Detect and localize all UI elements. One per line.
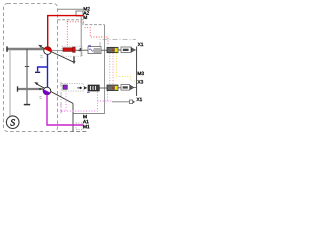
frame divider x61 — [60, 82, 62, 114]
dotted group row2 — [62, 84, 84, 92]
wire A2 red — [48, 16, 84, 47]
magenta dotted signal 3 — [98, 91, 108, 101]
magenta dotted signal 2 — [60, 104, 62, 111]
terminal bar — [6, 46, 8, 51]
tap vertical x81 — [80, 16, 82, 56]
terminal T-bar — [24, 104, 30, 106]
gray net X1 wire — [112, 101, 130, 103]
signal tap arrow R1 — [73, 56, 75, 62]
row2 terminal tick — [17, 86, 19, 91]
thick wire row2 — [18, 88, 44, 90]
wire M loop vertical — [73, 25, 105, 114]
AM2 tiny label — [39, 97, 42, 99]
wire magenta — [47, 95, 83, 125]
bullet source — [77, 87, 79, 89]
label A1 — [83, 120, 89, 123]
meter block M2a — [107, 85, 118, 91]
wire — [118, 49, 121, 51]
purple box — [63, 85, 67, 89]
thick bus wire top — [7, 48, 44, 50]
resistor R3 — [121, 85, 130, 91]
wire M bottom stub — [73, 113, 83, 115]
arrow sym row1 — [131, 47, 133, 52]
wire — [101, 49, 107, 51]
pin dashed box bottom — [76, 123, 83, 130]
end bracket — [130, 100, 133, 104]
arrow sym row2 — [129, 85, 131, 90]
label M3 — [138, 72, 144, 75]
label X3 — [138, 80, 144, 83]
red dotted signal L3 — [85, 28, 109, 46]
label M2 — [84, 7, 90, 10]
wire — [118, 87, 121, 89]
wire circle to R1 — [51, 49, 63, 51]
AM2 drop wire — [72, 103, 74, 131]
arrow row2 — [84, 86, 87, 89]
junction mark — [78, 49, 81, 51]
frame corner upper-right — [100, 40, 136, 48]
bus vertical x10 — [9, 49, 11, 116]
component U1 — [88, 47, 101, 54]
meter block M1a — [107, 47, 118, 52]
wire blue — [47, 54, 49, 87]
label A2 — [83, 11, 89, 14]
label M — [84, 16, 87, 19]
bottom dashed extension — [58, 131, 89, 133]
label M1 — [83, 125, 89, 128]
blue terminal bar — [35, 71, 40, 73]
red dotted signal L1 — [66, 21, 68, 46]
resistor R1 red — [63, 48, 74, 52]
bus X1 vertical — [136, 47, 138, 97]
blue tick row2 — [87, 91, 90, 93]
red dotted signal L2 — [67, 21, 84, 23]
label M — [83, 115, 86, 118]
wire M2 gray — [58, 8, 84, 10]
ammeter AM2 arrow — [36, 84, 73, 104]
bus vertical x27 — [26, 49, 28, 104]
AM1 tiny label — [40, 56, 43, 58]
junction diamond — [39, 88, 41, 90]
blue tick above U1 — [88, 45, 91, 47]
magenta dotted signal — [66, 91, 98, 112]
resistor R2 — [121, 47, 131, 53]
source S circle — [6, 116, 19, 129]
wire — [75, 49, 88, 51]
pink dotted signal — [112, 53, 114, 85]
yellow dotted signal — [116, 53, 118, 77]
ammeter AM2 circle — [43, 87, 51, 95]
wire — [99, 87, 107, 89]
outer dashed frame — [4, 4, 58, 132]
label X1 — [137, 98, 143, 101]
pin box A2 — [76, 11, 83, 16]
striped box — [88, 85, 99, 91]
blue branch — [38, 67, 48, 71]
wire M loop gray dashed — [58, 20, 105, 25]
ammeter AM1 arrow — [40, 46, 74, 62]
dotted group R1 — [62, 46, 82, 56]
purple dotted signal — [109, 53, 111, 85]
ammeter AM1 circle — [44, 47, 52, 55]
junction tick — [25, 66, 29, 68]
label X1 — [138, 43, 144, 46]
label S — [10, 119, 14, 125]
